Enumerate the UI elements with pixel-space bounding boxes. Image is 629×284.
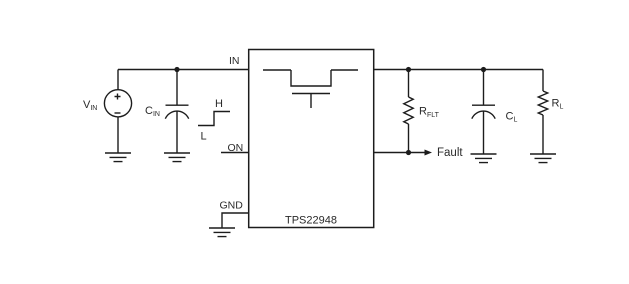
ground CL [471, 154, 497, 163]
capacitor CL [472, 105, 495, 119]
ground RL [530, 154, 556, 163]
ground GND pin [209, 228, 235, 237]
svg-text:GND: GND [220, 200, 244, 212]
wire RL bottom lead [542, 115, 544, 154]
svg-text:RFLT: RFLT [419, 106, 440, 120]
ground VIN [105, 153, 131, 162]
transistor Q1 gate plate [292, 93, 330, 95]
node fault junction [406, 150, 411, 155]
svg-text:Fault: Fault [437, 147, 463, 159]
wire RFLT top lead [408, 70, 410, 98]
ground CIN [164, 153, 190, 162]
svg-text:IN: IN [229, 55, 240, 67]
wire CIN top lead [176, 70, 178, 106]
transistor Q1 source lead [331, 69, 358, 71]
svg-text:TPS22948: TPS22948 [285, 215, 337, 227]
wire CL top lead [483, 70, 485, 106]
wire input rail to IN pin [118, 69, 249, 71]
wire fault output [374, 152, 425, 154]
VIN minus sign [115, 112, 121, 114]
fault arrowhead [425, 150, 433, 156]
voltage source VIN [104, 90, 131, 117]
wire VIN top lead [117, 70, 119, 90]
svg-text:RL: RL [552, 98, 564, 111]
op-amp U1 TPS22948 package outline [249, 50, 374, 228]
wire CIN bottom lead [176, 111, 178, 153]
wire GND pin [222, 213, 249, 228]
capacitor CIN [165, 105, 188, 119]
svg-text:CL: CL [506, 111, 518, 124]
svg-text:H: H [215, 98, 223, 110]
wire RFLT bottom lead [408, 124, 410, 153]
transistor Q1 channel [291, 70, 331, 86]
svg-text:ON: ON [228, 142, 244, 154]
step waveform symbol [198, 112, 230, 126]
resistor RFLT [404, 97, 413, 124]
transistor Q1 pass FET drain lead [263, 69, 291, 71]
VIN plus sign [115, 94, 121, 100]
svg-text:CIN: CIN [145, 105, 160, 118]
wire CL bottom lead [483, 111, 485, 154]
resistor RL [538, 91, 547, 115]
node input junction [174, 67, 179, 72]
wire output rail [374, 69, 543, 71]
node CL top junction [481, 67, 486, 72]
transistor Q1 gate lead [310, 94, 312, 109]
wire VIN bottom lead [117, 117, 119, 153]
wire RL top lead [542, 70, 544, 92]
wire ON pin stub [221, 152, 249, 154]
svg-text:VIN: VIN [83, 99, 97, 112]
node RFLT top junction [406, 67, 411, 72]
svg-text:L: L [201, 131, 207, 143]
